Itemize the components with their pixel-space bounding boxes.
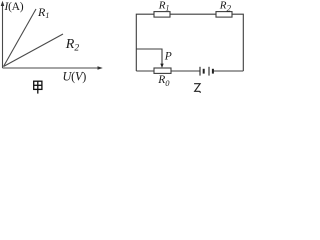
- wire: top right + right vertical: [232, 14, 243, 71]
- wiper arrow P: [160, 64, 163, 68]
- svg-text:U(V): U(V): [63, 69, 87, 83]
- y-axis: [2, 5, 4, 68]
- wire: R0 to battery: [171, 70, 200, 72]
- x-axis: [3, 67, 100, 69]
- battery cell 2 long plate: [208, 67, 210, 76]
- wiper wire from left rail: [136, 49, 162, 64]
- line R2: [4, 34, 64, 67]
- rheostat R0 box: [154, 68, 171, 73]
- resistor R2 box: [216, 12, 232, 18]
- wire: battery to right: [213, 70, 243, 72]
- battery cell 1 short thick plate: [203, 69, 205, 74]
- battery cell 2 short thick plate: [212, 69, 214, 74]
- line R1: [4, 9, 37, 67]
- svg-text:P: P: [164, 50, 172, 62]
- wire: top middle: [170, 13, 216, 15]
- battery cell 1 long plate: [199, 67, 201, 76]
- wire: bottom left into R0: [136, 70, 154, 72]
- label 甲: [34, 81, 42, 93]
- x-axis arrow: [98, 66, 103, 70]
- y-axis arrow: [1, 1, 5, 6]
- wire: top left: [136, 14, 154, 71]
- resistor R1 box: [154, 12, 170, 18]
- svg-text:I(A): I(A): [4, 0, 24, 13]
- label 乙: [194, 84, 200, 93]
